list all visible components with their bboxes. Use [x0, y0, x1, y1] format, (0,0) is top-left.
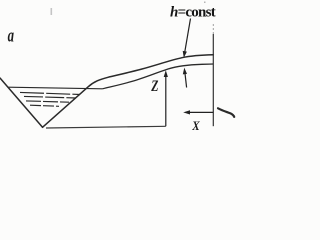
water hatching row 3 [26, 101, 69, 102]
h=const pointer arrow (down) [185, 19, 191, 54]
Z dimension line with up arrow [165, 75, 167, 127]
water hatching row 2 [24, 96, 76, 98]
faint speck [204, 2, 206, 4]
faint stray mark top [51, 8, 53, 15]
reservoir left bank slope [0, 78, 43, 127]
gap dimension arrow (up, at lower curve) [185, 73, 187, 88]
reservoir water surface line [8, 87, 103, 89]
svg-text:a: a [8, 26, 15, 47]
water hatching row 4 [30, 105, 59, 106]
right boundary vertical line (faint top) [212, 24, 214, 34]
svg-text:Z: Z [151, 78, 159, 95]
stray tick mark right [218, 108, 234, 117]
water hatching row 1 [20, 92, 80, 94]
svg-text:h=const: h=const [170, 4, 216, 20]
right boundary vertical line [212, 34, 214, 126]
wave profile curve (steep front rising to h=const surface) [43, 55, 214, 128]
datum base line [46, 126, 166, 128]
lower surface curve (initial depth line) [103, 64, 214, 89]
X dimension arrow (pointing left) [187, 111, 213, 113]
svg-text:X: X [191, 118, 200, 132]
